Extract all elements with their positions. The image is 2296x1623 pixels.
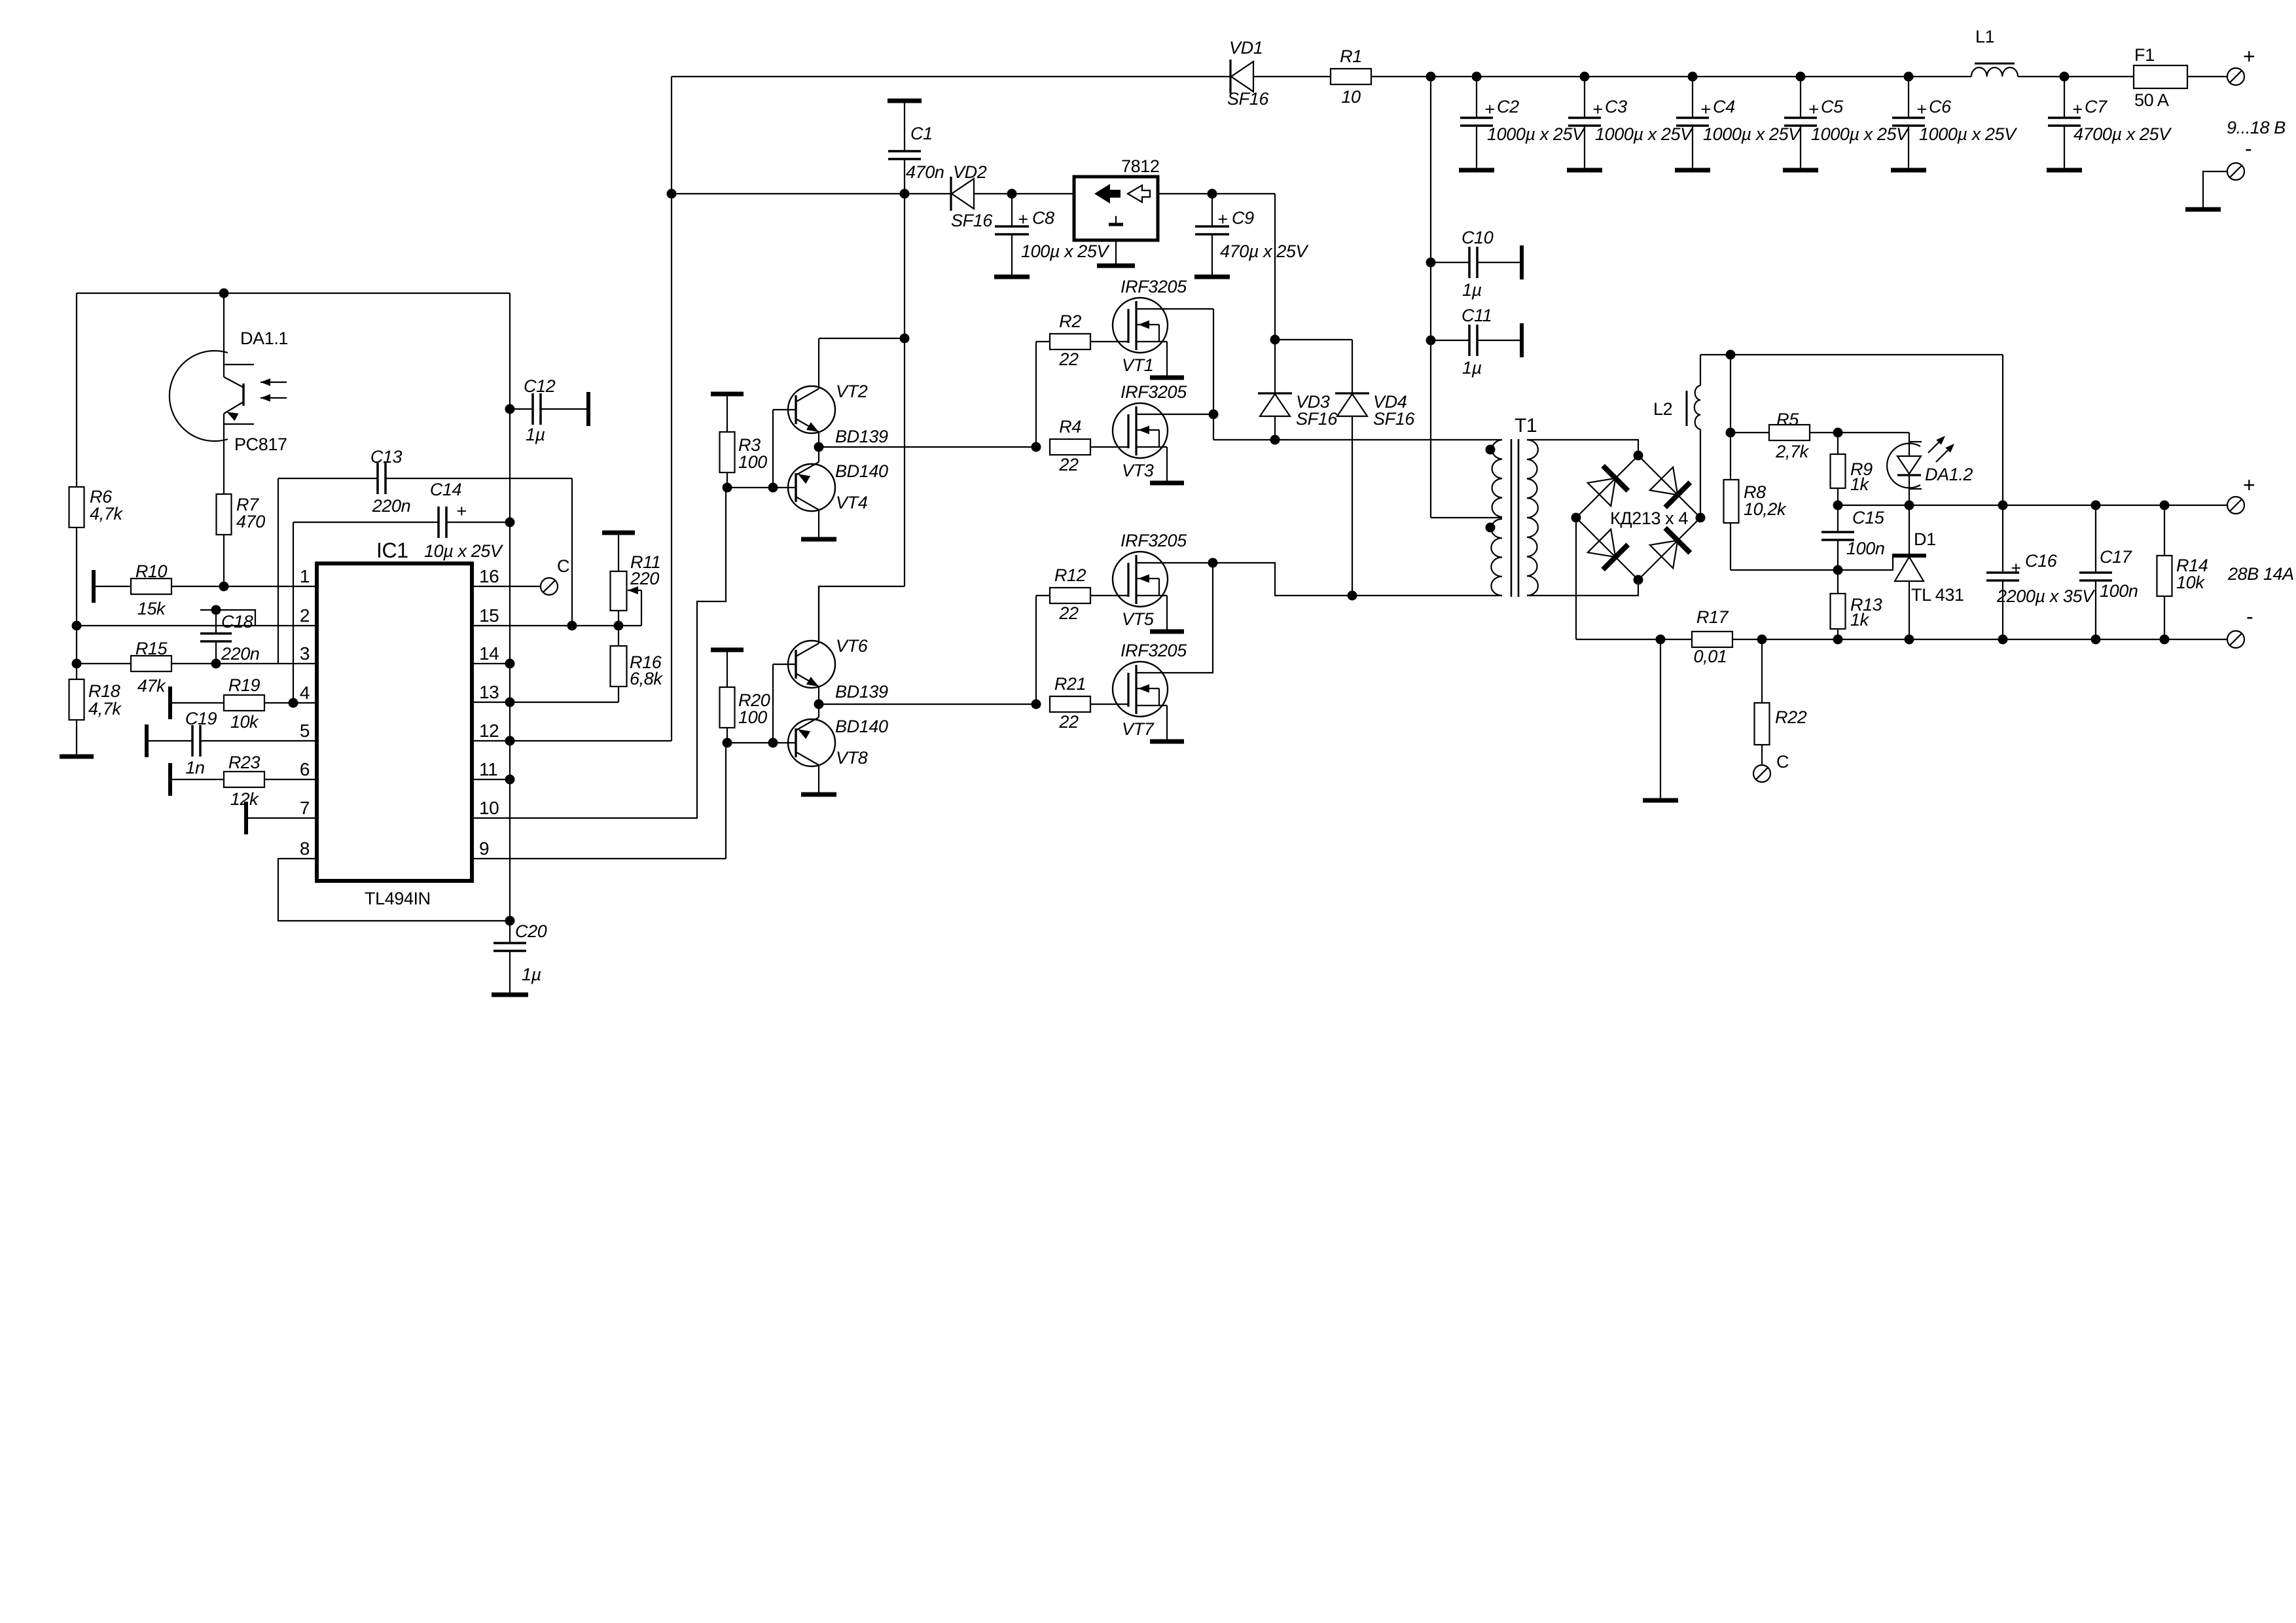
svg-text:VT4: VT4 <box>836 493 867 512</box>
resistor R14 <box>2157 505 2208 639</box>
svg-text:220: 220 <box>630 569 659 588</box>
transistor VT8 BD140 <box>788 717 888 768</box>
transistor VT7 IRF3205 <box>1113 641 1213 741</box>
svg-text:IRF3205: IRF3205 <box>1121 277 1187 296</box>
svg-text:C14: C14 <box>430 480 461 499</box>
capacitor C4 <box>1675 77 1802 170</box>
wire pin15 <box>472 621 641 631</box>
capacitor C13 <box>278 447 572 664</box>
svg-text:+: + <box>1916 99 1926 119</box>
capacitor C7 <box>2047 77 2172 170</box>
wire 12V to drivers <box>819 194 905 640</box>
svg-text:1µ: 1µ <box>1462 358 1482 378</box>
resistor R16 <box>611 626 664 702</box>
wire pin9 drive <box>472 743 726 859</box>
svg-text:C15: C15 <box>1852 508 1885 527</box>
svg-text:1µ: 1µ <box>522 965 541 984</box>
bridge rectifier KD213 <box>1571 451 1706 585</box>
terminal + output <box>2227 473 2255 514</box>
svg-text:+: + <box>1217 209 1227 229</box>
svg-text:+: + <box>1592 99 1602 119</box>
diode VD3 <box>1258 392 1338 440</box>
svg-text:22: 22 <box>1058 603 1079 623</box>
capacitor C1 <box>888 101 944 199</box>
svg-text:BD139: BD139 <box>835 427 888 446</box>
wire pin13 <box>472 698 619 707</box>
svg-text:SF16: SF16 <box>1373 409 1415 429</box>
svg-text:+: + <box>1018 209 1028 229</box>
transistor VT6 BD139 <box>788 636 888 702</box>
svg-text:6: 6 <box>300 759 310 779</box>
IC U1 TL494 box <box>317 539 472 908</box>
transistor VT4 BD140 <box>788 461 888 512</box>
svg-text:C9: C9 <box>1232 208 1254 228</box>
svg-text:-: - <box>2245 137 2251 160</box>
svg-text:R21: R21 <box>1054 674 1086 694</box>
wire R5 node <box>1726 355 1736 480</box>
svg-text:9...18 В: 9...18 В <box>2227 118 2286 137</box>
optocoupler DA1.1 phototransistor <box>170 289 288 495</box>
svg-text:IC1: IC1 <box>376 539 408 562</box>
svg-text:+: + <box>1700 99 1710 119</box>
svg-text:13: 13 <box>479 682 499 702</box>
svg-text:R19: R19 <box>228 675 260 695</box>
transistor VT2 BD139 <box>788 382 888 446</box>
svg-text:9: 9 <box>479 838 489 859</box>
wire gate link lower <box>1035 596 1037 704</box>
svg-text:2: 2 <box>300 605 310 626</box>
terminal C sense <box>1753 752 1789 782</box>
node R3 out <box>723 473 778 493</box>
node emitters bottom <box>814 687 1037 717</box>
svg-text:VD2: VD2 <box>953 162 987 182</box>
svg-text:C11: C11 <box>1462 306 1492 325</box>
svg-text:D1: D1 <box>1914 529 1936 549</box>
wire VT6 collector <box>818 586 819 643</box>
svg-text:1µ: 1µ <box>526 425 545 444</box>
capacitor C16 <box>1986 505 2096 639</box>
terminal C pin16 <box>472 556 569 595</box>
svg-text:+: + <box>456 501 466 521</box>
resistor R21 <box>1031 674 1129 732</box>
svg-text:C19: C19 <box>185 709 217 728</box>
wire 12V rail <box>672 194 1275 393</box>
resistor R15 <box>72 639 317 696</box>
svg-text:8: 8 <box>300 838 310 859</box>
svg-text:КД213 x 4: КД213 x 4 <box>1610 508 1688 528</box>
wire base link top <box>773 410 796 488</box>
svg-text:C: C <box>557 556 569 576</box>
svg-text:VT2: VT2 <box>836 382 868 401</box>
svg-text:1000µ x 25V: 1000µ x 25V <box>1487 124 1586 144</box>
svg-text:C13: C13 <box>370 447 403 467</box>
node R20 out <box>723 728 778 748</box>
svg-text:-: - <box>2246 605 2253 628</box>
wire bridge minus <box>1575 518 1577 639</box>
resistor R17 <box>1692 607 1732 666</box>
svg-text:10,2k: 10,2k <box>1744 499 1787 519</box>
wire pin2 <box>72 621 317 631</box>
wire VT4 collector ground <box>801 510 836 539</box>
capacitor C5 <box>1783 77 1910 170</box>
regulator 7812 <box>1074 156 1159 266</box>
svg-text:C1: C1 <box>910 124 933 143</box>
svg-text:100: 100 <box>738 707 767 727</box>
wire drain bus upper <box>1209 309 1219 440</box>
svg-text:VD1: VD1 <box>1229 38 1263 58</box>
svg-text:7812: 7812 <box>1121 156 1159 176</box>
wire VT2 collector <box>819 334 910 389</box>
svg-text:16: 16 <box>479 566 499 586</box>
svg-text:T1: T1 <box>1515 415 1537 437</box>
svg-text:SF16: SF16 <box>1227 89 1269 109</box>
wire pin8 loop <box>278 859 510 921</box>
svg-text:1µ: 1µ <box>1462 280 1482 300</box>
node emitters top <box>814 432 1037 462</box>
svg-text:TL 431: TL 431 <box>1911 585 1964 605</box>
svg-text:C20: C20 <box>515 921 547 941</box>
resistor R22 <box>1755 639 1807 765</box>
svg-text:4,7k: 4,7k <box>90 504 123 524</box>
wire output rail minus <box>1576 635 2227 645</box>
svg-text:1000µ x 25V: 1000µ x 25V <box>1811 124 1910 144</box>
svg-text:10: 10 <box>1341 87 1361 107</box>
inductor L2 <box>1653 355 1700 518</box>
svg-text:C5: C5 <box>1821 97 1844 116</box>
svg-text:1k: 1k <box>1850 474 1870 494</box>
svg-text:R17: R17 <box>1696 607 1729 627</box>
LED DA1.2 <box>1838 433 1973 505</box>
resistor R19 <box>170 675 317 732</box>
capacitor C18 <box>200 605 259 669</box>
svg-text:14: 14 <box>479 643 499 664</box>
svg-text:0,01: 0,01 <box>1694 647 1727 666</box>
svg-text:C16: C16 <box>2025 551 2058 571</box>
svg-text:R23: R23 <box>228 753 260 772</box>
terminal - battery <box>2185 137 2251 209</box>
wire pin14 <box>472 659 515 669</box>
svg-text:PC817: PC817 <box>234 435 287 454</box>
capacitor C15 <box>1821 505 1885 575</box>
svg-text:VT6: VT6 <box>836 636 869 656</box>
svg-text:R5: R5 <box>1776 410 1799 429</box>
svg-text:220n: 220n <box>221 644 259 664</box>
node VD branch <box>1270 335 1353 394</box>
power bar R20 <box>711 650 744 687</box>
svg-text:VT8: VT8 <box>836 748 868 768</box>
label output 28V <box>2227 564 2294 584</box>
svg-text:R2: R2 <box>1059 312 1081 331</box>
svg-text:VT5: VT5 <box>1122 609 1155 629</box>
capacitor C3 <box>1567 77 1694 170</box>
capacitor C9 <box>1194 189 1310 277</box>
svg-text:1000µ x 25V: 1000µ x 25V <box>1919 124 2018 144</box>
svg-text:L1: L1 <box>1975 27 1994 46</box>
wire left rail <box>76 293 77 679</box>
svg-text:C4: C4 <box>1713 97 1735 116</box>
wire primary center feed <box>1426 77 1436 518</box>
svg-text:2200µ x 35V: 2200µ x 35V <box>1996 586 2096 606</box>
svg-text:15k: 15k <box>137 599 166 618</box>
svg-text:R18: R18 <box>88 681 120 701</box>
resistor R4 <box>1031 417 1129 474</box>
svg-text:11: 11 <box>479 759 497 779</box>
resistor R5 <box>1731 410 1843 461</box>
capacitor C10 <box>1431 228 1522 300</box>
svg-text:DA1.1: DA1.1 <box>240 329 288 348</box>
wire pin12 <box>472 736 672 746</box>
resistor R18 <box>69 679 122 720</box>
svg-text:C2: C2 <box>1497 97 1519 116</box>
wire base link bottom <box>773 664 796 743</box>
svg-text:VT1: VT1 <box>1122 355 1153 375</box>
wire T1 top primary <box>1213 435 1502 445</box>
svg-text:SF16: SF16 <box>1296 409 1338 429</box>
diode VD1 <box>1227 38 1269 109</box>
wire T1 secondary leads <box>1527 440 1638 596</box>
wire VCC vertical <box>667 77 677 741</box>
svg-text:22: 22 <box>1058 349 1079 369</box>
transistor VT3 IRF3205 <box>1113 382 1213 483</box>
svg-text:C18: C18 <box>221 612 253 632</box>
inductor L1 <box>1971 27 2018 77</box>
svg-text:+: + <box>1484 99 1494 119</box>
wire gate link upper <box>1035 342 1037 447</box>
svg-text:3: 3 <box>300 643 310 664</box>
svg-text:47k: 47k <box>137 676 166 696</box>
svg-text:C12: C12 <box>524 376 556 396</box>
svg-text:+: + <box>2072 99 2082 119</box>
svg-text:R1: R1 <box>1340 46 1362 66</box>
IC pin numbers <box>300 566 499 859</box>
svg-text:R12: R12 <box>1054 565 1086 585</box>
svg-text:10k: 10k <box>230 712 259 732</box>
svg-text:BD139: BD139 <box>835 682 888 702</box>
svg-text:1000µ x 25V: 1000µ x 25V <box>1595 124 1694 144</box>
svg-text:R10: R10 <box>135 562 168 581</box>
svg-text:100: 100 <box>738 452 767 472</box>
svg-text:F1: F1 <box>2134 45 2155 65</box>
resistor R3 <box>720 432 768 473</box>
svg-text:7: 7 <box>300 798 310 818</box>
svg-text:TL494IN: TL494IN <box>365 889 431 908</box>
svg-text:5: 5 <box>300 721 310 741</box>
svg-text:4700µ x 25V: 4700µ x 25V <box>2073 124 2172 144</box>
svg-text:C8: C8 <box>1032 208 1054 228</box>
svg-text:C: C <box>1776 752 1789 772</box>
svg-text:1k: 1k <box>1850 610 1870 630</box>
wire VT8 collector ground <box>801 765 836 794</box>
resistor R8 <box>1724 480 1839 570</box>
svg-text:VT7: VT7 <box>1122 719 1155 739</box>
svg-text:1: 1 <box>300 566 310 586</box>
svg-text:VT3: VT3 <box>1122 461 1154 480</box>
ground R18 <box>60 720 94 757</box>
svg-text:10k: 10k <box>2176 573 2205 592</box>
capacitor C20 <box>492 916 547 995</box>
svg-text:470n: 470n <box>906 162 944 182</box>
svg-text:IRF3205: IRF3205 <box>1121 382 1187 402</box>
wire pin10 drive <box>472 488 726 818</box>
svg-text:22: 22 <box>1058 455 1079 474</box>
svg-text:220n: 220n <box>372 496 410 516</box>
svg-text:R4: R4 <box>1059 417 1081 437</box>
power bar R3 <box>711 394 744 432</box>
svg-text:4,7k: 4,7k <box>88 699 122 719</box>
svg-text:50 A: 50 A <box>2134 90 2169 110</box>
wire output rail plus <box>1833 501 2228 510</box>
ground pin7 <box>246 802 317 834</box>
svg-text:IRF3205: IRF3205 <box>1121 641 1187 660</box>
resistor R13 <box>1831 570 1882 639</box>
svg-text:10µ x 25V: 10µ x 25V <box>424 541 504 561</box>
resistor R10 <box>94 562 317 618</box>
svg-text:+: + <box>1808 99 1818 119</box>
capacitor C2 <box>1459 77 1586 170</box>
transistor VT5 IRF3205 <box>1113 531 1213 632</box>
wire top loop <box>77 293 510 294</box>
ground bar pin1 <box>92 570 96 603</box>
svg-text:100µ x 25V: 100µ x 25V <box>1021 241 1111 261</box>
svg-text:L2: L2 <box>1653 399 1672 419</box>
svg-text:+: + <box>2243 473 2255 497</box>
svg-text:1000µ x 25V: 1000µ x 25V <box>1703 124 1802 144</box>
svg-text:2,7k: 2,7k <box>1775 442 1809 461</box>
svg-text:SF16: SF16 <box>951 211 993 230</box>
shunt regulator D1 TL431 <box>1838 505 1964 639</box>
transformer T1 primary <box>1486 440 1503 596</box>
node battery rail junctions <box>1426 72 2070 82</box>
wire pin11 <box>472 775 515 785</box>
capacitor C12 <box>505 376 589 444</box>
svg-text:R22: R22 <box>1775 707 1807 727</box>
svg-text:+: + <box>2243 45 2255 68</box>
wire supply vertical C12 <box>509 293 511 921</box>
capacitor C11 <box>1431 306 1522 378</box>
svg-text:IRF3205: IRF3205 <box>1121 531 1187 550</box>
capacitor C17 <box>2079 505 2138 639</box>
svg-text:4: 4 <box>300 683 310 703</box>
wire drain bus lower <box>1208 558 1218 673</box>
svg-text:DA1.2: DA1.2 <box>1925 465 1973 484</box>
resistor R6 <box>69 487 124 527</box>
svg-text:6,8k: 6,8k <box>630 669 663 688</box>
svg-text:C10: C10 <box>1462 228 1494 247</box>
transistor VT1 IRF3205 <box>1113 277 1213 378</box>
label 9...18 V <box>2227 118 2286 137</box>
resistor R1 <box>1331 46 1371 107</box>
svg-text:C7: C7 <box>2085 97 2108 116</box>
svg-text:1n: 1n <box>185 758 204 777</box>
capacitor C19 <box>147 709 317 777</box>
resistor R23 <box>170 753 317 809</box>
capacitor C6 <box>1891 77 2018 170</box>
svg-text:15: 15 <box>479 605 499 626</box>
ground output <box>1643 639 1678 800</box>
svg-text:12: 12 <box>479 721 499 741</box>
wire output top <box>1700 350 2003 506</box>
svg-text:C17: C17 <box>2100 547 2132 567</box>
resistor R7 <box>217 494 266 586</box>
diode VD2 <box>951 162 993 230</box>
terminal - output <box>2227 605 2253 648</box>
transformer T1 core <box>1511 415 1537 597</box>
resistor R2 <box>1036 312 1128 369</box>
svg-text:10: 10 <box>479 798 499 818</box>
svg-text:470µ x 25V: 470µ x 25V <box>1220 241 1310 261</box>
svg-text:100n: 100n <box>1846 539 1884 558</box>
capacitor C14 <box>293 480 515 703</box>
svg-text:470: 470 <box>236 512 265 531</box>
diode VD4 <box>1335 392 1415 596</box>
resistor R9 <box>1831 433 1873 505</box>
svg-text:28В 14А: 28В 14А <box>2227 564 2294 584</box>
svg-text:BD140: BD140 <box>835 717 888 736</box>
svg-text:R15: R15 <box>135 639 168 658</box>
svg-text:22: 22 <box>1058 712 1079 732</box>
svg-text:C3: C3 <box>1605 97 1627 116</box>
svg-text:100n: 100n <box>2100 581 2138 601</box>
svg-text:C6: C6 <box>1929 97 1952 116</box>
wire T1 bottom primary <box>1213 563 1502 601</box>
terminal + battery <box>2227 45 2255 85</box>
resistor R20 <box>720 687 770 728</box>
wire T1 center tap <box>1431 517 1502 518</box>
potentiometer R11 <box>602 533 660 626</box>
svg-text:BD140: BD140 <box>835 461 888 481</box>
wire top battery rail <box>672 76 2227 77</box>
transformer T1 secondary <box>1527 440 1538 596</box>
svg-text:+: + <box>2011 558 2020 578</box>
capacitor C8 <box>994 189 1111 277</box>
resistor R12 <box>1036 565 1128 623</box>
fuse F1 <box>2134 45 2187 110</box>
